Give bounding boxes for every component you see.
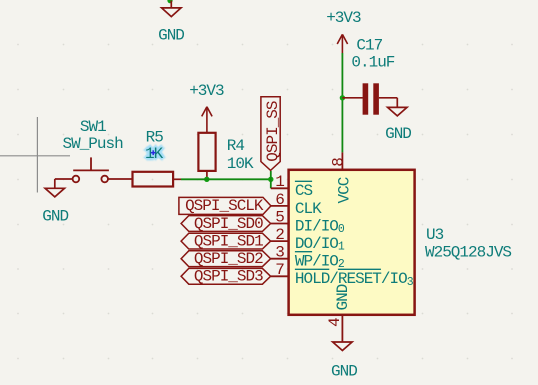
ground GND (SW1) xyxy=(45,188,64,197)
svg-text:1: 1 xyxy=(275,173,284,191)
svg-text:C17: C17 xyxy=(356,37,382,55)
svg-text:DI/IO0: DI/IO0 xyxy=(295,217,345,235)
wire SW1 to R5 xyxy=(108,178,133,180)
svg-text:QSPI_SD3: QSPI_SD3 xyxy=(194,268,263,286)
label GND (bottom) xyxy=(331,362,357,380)
label R5 xyxy=(146,129,164,147)
pin 3 WP/IO2 xyxy=(271,244,345,271)
label SW_Push xyxy=(62,135,123,153)
svg-text:SW_Push: SW_Push xyxy=(62,135,123,153)
wire SW1 pin1 to ground xyxy=(55,179,73,188)
svg-text:10K: 10K xyxy=(227,155,254,173)
pin R5-2 xyxy=(173,178,181,180)
svg-text:DO/IO1: DO/IO1 xyxy=(295,235,345,253)
svg-text:U3: U3 xyxy=(426,226,444,244)
ground GND (C17) xyxy=(388,107,407,116)
svg-text:QSPI_SCLK: QSPI_SCLK xyxy=(185,197,264,215)
resistor R5 xyxy=(133,172,174,187)
svg-text:HOLD/RESET/IO3: HOLD/RESET/IO3 xyxy=(295,270,414,288)
pin 4 GND xyxy=(326,284,352,342)
pin 1 CS xyxy=(271,173,313,200)
label GND (top) xyxy=(158,27,184,45)
svg-text:QSPI_SD2: QSPI_SD2 xyxy=(194,250,263,268)
svg-text:VCC: VCC xyxy=(335,177,353,203)
svg-text:4: 4 xyxy=(326,318,344,327)
global label QSPI_SD1 xyxy=(181,232,271,250)
svg-text:6: 6 xyxy=(275,191,284,209)
svg-text:5: 5 xyxy=(275,208,284,226)
node top-left wire end dot xyxy=(167,0,172,3)
svg-text:8: 8 xyxy=(329,158,347,167)
svg-text:QSPI_SD1: QSPI_SD1 xyxy=(194,232,263,250)
wire R5 to U3 CS xyxy=(181,178,271,180)
svg-text:GND: GND xyxy=(42,207,68,225)
label +3V3 (VCC rail) xyxy=(326,9,361,27)
svg-text:2: 2 xyxy=(275,226,284,244)
label 0.1uF xyxy=(351,54,394,72)
svg-text:GND: GND xyxy=(158,27,184,45)
label C17 xyxy=(356,37,382,55)
anchor cross of 1K xyxy=(151,150,156,155)
svg-text:GND: GND xyxy=(334,284,352,310)
global label QSPI_SD2 xyxy=(181,250,271,268)
svg-text:QSPI_SD0: QSPI_SD0 xyxy=(194,215,263,233)
global label QSPI_SS xyxy=(261,97,282,171)
pin 6 CLK xyxy=(271,191,322,218)
label SW1 xyxy=(80,118,106,136)
svg-text:CS: CS xyxy=(295,182,313,200)
label GND (C17) xyxy=(385,125,411,143)
pin 7 HOLD/RESET/IO3 xyxy=(271,261,414,288)
cursor crosshair xyxy=(0,117,70,193)
junction at C17 branch xyxy=(340,95,345,100)
wire C17 to ground xyxy=(379,98,397,108)
ground GND (top) xyxy=(162,1,181,17)
label 10K xyxy=(227,155,254,173)
pin 2 DO/IO1 xyxy=(271,226,345,253)
svg-text:GND: GND xyxy=(331,362,357,380)
svg-text:0.1uF: 0.1uF xyxy=(351,54,394,72)
resistor R4 xyxy=(198,133,215,171)
IC U3 body xyxy=(289,170,415,315)
wire junction to C17 xyxy=(342,97,362,99)
svg-text:GND: GND xyxy=(385,125,411,143)
grid dots (decorative) xyxy=(17,44,513,360)
junction R4 / wire xyxy=(204,177,209,182)
svg-text:+3V3: +3V3 xyxy=(189,82,224,100)
svg-text:QSPI_SS: QSPI_SS xyxy=(264,101,282,162)
power +3V3 (R4) xyxy=(202,107,212,133)
power +3V3 (VCC rail) xyxy=(337,34,347,53)
svg-text:W25Q128JVS: W25Q128JVS xyxy=(425,243,511,261)
ground GND (U3 pin 4) xyxy=(333,342,352,351)
label GND (SW1) xyxy=(42,207,68,225)
label W25Q128JVS xyxy=(425,243,511,261)
label R4 xyxy=(227,137,245,155)
switch SW1 xyxy=(73,157,109,182)
capacitor C17 xyxy=(363,83,379,114)
svg-text:CLK: CLK xyxy=(295,200,322,218)
label 1K (selected, halo) xyxy=(145,145,164,163)
global label QSPI_SD3 xyxy=(181,268,271,286)
wire +3V3 to U3 VCC xyxy=(341,53,343,152)
wire QSPI_SS label to pin 1 xyxy=(270,171,272,189)
pin R4-2 xyxy=(206,171,208,179)
label U3 xyxy=(426,226,444,244)
junction QSPI_SS xyxy=(268,177,273,182)
svg-text:3: 3 xyxy=(275,244,284,262)
pin 8 VCC xyxy=(329,152,353,203)
label +3V3 (R4) xyxy=(189,82,224,100)
svg-text:WP/IO2: WP/IO2 xyxy=(295,253,345,271)
svg-text:SW1: SW1 xyxy=(80,118,106,136)
global label QSPI_SCLK xyxy=(179,197,271,215)
svg-text:1K: 1K xyxy=(145,145,164,163)
pin 5 DI/IO0 xyxy=(271,208,345,235)
global label QSPI_SD0 xyxy=(181,215,271,233)
svg-text:R4: R4 xyxy=(227,137,245,155)
svg-text:7: 7 xyxy=(275,261,284,279)
svg-text:+3V3: +3V3 xyxy=(326,9,361,27)
svg-text:R5: R5 xyxy=(146,129,164,147)
